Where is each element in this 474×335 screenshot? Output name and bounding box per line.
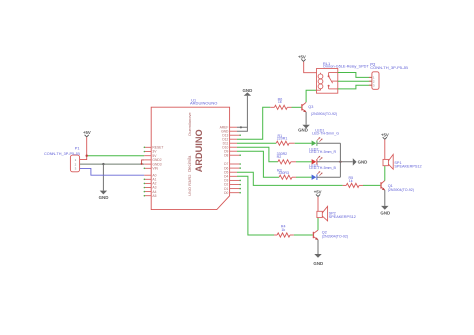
wire LED bus vertical (339, 143, 341, 177)
IC U1 ARDUINOUNO (151, 98, 229, 209)
wire R1 to LED1 (295, 142, 312, 144)
pin D4 (224, 175, 237, 179)
wire AREF-GND to ground (237, 96, 247, 131)
wire D10 to R2 (237, 147, 278, 162)
speaker SP1 (383, 154, 422, 169)
resistor R2 (277, 152, 296, 164)
pin D2 (224, 183, 241, 187)
svg-text:+5V: +5V (381, 133, 389, 138)
svg-text:SPEAKERPS12: SPEAKERPS12 (329, 215, 356, 219)
wire Q1 emitter to ground (384, 190, 386, 206)
svg-text:R2: R2 (277, 155, 282, 159)
pin D5 (224, 170, 237, 174)
svg-text:1k: 1k (278, 100, 282, 104)
wire +5V to P1 pin1 (80, 137, 87, 159)
svg-text:+5V: +5V (83, 130, 91, 135)
wire A0 net (blue) (80, 168, 144, 175)
speaker SP2 (317, 206, 356, 221)
pin AREF (220, 125, 237, 129)
svg-text:(2N3904(TO-92): (2N3904(TO-92) (388, 188, 414, 192)
wire D11 to R1 (237, 142, 276, 144)
svg-text:Duemilanove: Duemilanove (187, 112, 192, 136)
resistor R1 (276, 134, 295, 145)
svg-text:1k: 1k (281, 228, 285, 232)
svg-text:ARDUINO: ARDUINO (194, 129, 204, 172)
svg-text:GND: GND (243, 88, 253, 93)
wire Q3 emitter to ground (305, 112, 307, 125)
wire Q2 emitter to ground (317, 240, 319, 254)
svg-text:ARDUINOUNO: ARDUINOUNO (190, 101, 217, 106)
wire GND2 jog (142, 160, 145, 164)
svg-text:LED-TH-5mm_R: LED-TH-5mm_R (309, 150, 336, 154)
pin GND (221, 129, 237, 133)
pin 5V (144, 154, 157, 158)
svg-text:(2N3904(TO-92): (2N3904(TO-92) (322, 235, 348, 239)
svg-text:VIN: VIN (152, 167, 158, 171)
svg-text:Omron-G5LE-Relay_SPDT: Omron-G5LE-Relay_SPDT (323, 65, 369, 69)
pin A5 (144, 194, 157, 198)
wire Q1 collector to SP1 (384, 166, 386, 181)
resistor R6 (270, 97, 291, 109)
svg-text:220R1: 220R1 (277, 137, 288, 141)
wire R5 to Q1 base (363, 184, 380, 186)
wire LED1 cathode to bus (317, 142, 341, 144)
+5V supply SP2 (314, 190, 322, 197)
ground Q1 (380, 206, 390, 215)
svg-text:LED-TH-5mm_G: LED-TH-5mm_G (312, 132, 339, 136)
wire +5V to SP1 (384, 140, 386, 160)
pin D11 (223, 141, 237, 145)
connector P2 (369, 62, 408, 89)
ground top (arduino GND/AREF) (243, 88, 253, 96)
transistor Q3 (302, 102, 337, 115)
LED1 green (312, 128, 340, 146)
pin D8 (224, 153, 241, 157)
wire R2 to LED2 (296, 161, 312, 163)
wire D9 to R3 (237, 151, 279, 177)
svg-text:P1: P1 (75, 146, 80, 151)
svg-text:(2N3904(TO-92): (2N3904(TO-92) (311, 112, 337, 116)
pin D3 (224, 179, 241, 183)
svg-text:+5V: +5V (314, 190, 322, 195)
wire Q2 collector to SP2 (317, 218, 319, 231)
wire R3 to LED3 (296, 176, 312, 178)
wire relay NC to P2 pin3 (338, 85, 372, 89)
LED2 red (309, 148, 336, 165)
svg-text:1k: 1k (349, 179, 353, 183)
+5V supply left (83, 130, 91, 137)
+5V supply relay (298, 55, 306, 62)
resistor R5 (343, 176, 363, 188)
wire LED2 cathode to GND right (317, 161, 353, 163)
transistor Q2 (313, 230, 348, 240)
svg-text:A5: A5 (152, 194, 156, 198)
pin D1 (224, 187, 241, 191)
pin A1 (144, 178, 157, 182)
LED3 blue (309, 164, 336, 180)
wire +5V to SP2 (317, 197, 319, 211)
pin GND2 (144, 158, 162, 162)
svg-text:+5V: +5V (298, 55, 306, 60)
pin 3V3 (144, 150, 158, 154)
pin D6 (224, 166, 241, 170)
pin D0 (224, 191, 241, 195)
resistor R3 (277, 168, 296, 179)
+5V supply SP1 (381, 133, 389, 140)
junction GND2 (141, 163, 143, 165)
connector P1 (44, 146, 80, 172)
junction +5V (86, 155, 88, 157)
junction LED bus (339, 161, 341, 163)
pin A3 (144, 186, 157, 190)
wire to GND symbol left (102, 164, 104, 191)
wire relay COM to P2 pin2 (338, 80, 372, 82)
svg-text:UNO R3/R2: UNO R3/R2 (187, 174, 192, 196)
pin D12 (222, 137, 237, 141)
wire Q3 collector to relay coil (306, 90, 316, 102)
svg-text:SPEAKERPS12: SPEAKERPS12 (394, 164, 421, 168)
wire D12 to R6 (237, 107, 270, 139)
pin GND3 (144, 162, 162, 166)
wire R4 to Q2 base (294, 234, 313, 236)
svg-text:CONN-TH_3P-P5-JB: CONN-TH_3P-P5-JB (44, 152, 80, 156)
ground Q2 (313, 254, 323, 266)
pin A2 (144, 182, 157, 186)
wire 5V net to arduino (87, 155, 145, 157)
pin D7 (224, 162, 241, 166)
svg-text:GND: GND (99, 195, 109, 200)
svg-text:D8: D8 (224, 153, 228, 157)
pin D10 (222, 145, 237, 149)
resistor R4 (274, 225, 294, 237)
wire relay NO to P2 pin1 (338, 73, 372, 78)
pin VIN (144, 167, 159, 171)
svg-text:Q3: Q3 (308, 105, 313, 109)
wire +5V to relay coil (304, 62, 317, 73)
wire D4 to R4 (237, 176, 274, 235)
wire R6 to Q3 base (292, 106, 302, 108)
svg-text:D0: D0 (224, 191, 228, 195)
pin D13 (222, 133, 241, 137)
svg-text:Decimila: Decimila (187, 155, 192, 172)
svg-text:GND: GND (313, 261, 323, 266)
svg-text:GND: GND (380, 210, 390, 215)
wire D5 to R5 (237, 172, 343, 185)
ground LED bus (right arrow) (353, 158, 368, 165)
svg-text:GND: GND (298, 128, 308, 133)
junction AREF (240, 126, 242, 128)
wire LED3 cathode to bus (317, 176, 341, 178)
ground left (99, 191, 109, 200)
transistor Q1 (381, 181, 414, 193)
wire GND net P1 pin2 to arduino GND3 (80, 163, 144, 165)
pin A4 (144, 190, 157, 194)
pin A0 (144, 173, 156, 177)
pin D9 (224, 149, 237, 153)
svg-text:LED-TH-5mm_B: LED-TH-5mm_B (309, 166, 336, 170)
svg-text:CONN-TH_3P-P5-JB: CONN-TH_3P-P5-JB (370, 65, 408, 70)
ground Q3 (298, 125, 310, 133)
junction GND left (102, 163, 104, 165)
pin RESET (144, 146, 164, 150)
svg-text:GND: GND (358, 160, 368, 165)
relay RL1 (317, 61, 370, 93)
svg-text:330R3: 330R3 (278, 171, 289, 175)
